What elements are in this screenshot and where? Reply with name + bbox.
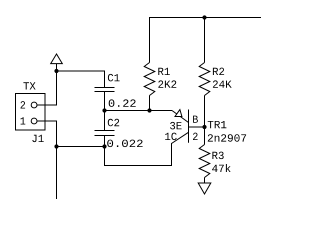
node pin1/bottom wire junction [54, 144, 58, 148]
connector J1 [16, 94, 46, 131]
wire VCC to pin2 [37, 71, 57, 105]
pin 2 circle [31, 102, 37, 108]
node R1/emitter junction [147, 108, 151, 112]
label 2K2 [158, 80, 176, 87]
label 2 [21, 101, 26, 108]
label B [193, 116, 198, 123]
label 47k [212, 164, 231, 172]
label R3 [212, 152, 223, 160]
resistor R1 [144, 63, 155, 96]
capacitor C2 [104, 111, 106, 131]
transistor TR1 emitter diagonal [172, 111, 189, 123]
wire C1 bottom lead [104, 92, 106, 111]
label 2n2907 [208, 134, 246, 142]
resistor R2 [199, 63, 210, 96]
wire R2 top lead [204, 18, 206, 63]
pin 1 circle [31, 118, 37, 124]
node top rail junction [202, 15, 206, 19]
label J1 [32, 135, 43, 142]
transistor TR1 emitter arrow [175, 110, 182, 117]
wire R1 bottom lead [149, 96, 151, 111]
node base junction [202, 125, 206, 129]
power VCC symbol [51, 54, 63, 64]
wire R3 bottom lead [204, 178, 206, 184]
label 24K [213, 80, 232, 87]
wire bottom net [57, 146, 105, 148]
wire emitter net [105, 110, 173, 112]
label 3E [170, 122, 182, 129]
wire VCC rail to C1 [57, 71, 105, 88]
label 0.022 [107, 140, 142, 148]
capacitor C1 [95, 87, 115, 89]
wire top rail [149, 17, 261, 19]
label TX [23, 82, 35, 89]
label 2 [193, 133, 198, 140]
label R2 [213, 68, 224, 75]
label 0.22 [109, 99, 136, 107]
resistor R3 [199, 145, 210, 178]
node C1/C2/emitter junction [102, 108, 106, 112]
label C2 [108, 119, 119, 127]
label C1 [108, 74, 120, 82]
wire pin1 [37, 121, 57, 199]
label 1C [165, 133, 177, 141]
transistor TR1 base bar [188, 110, 190, 143]
ground [198, 183, 211, 194]
wire collector net [105, 132, 189, 165]
node C2/collector junction [102, 144, 106, 148]
label TR1 [208, 121, 227, 128]
label 1 [21, 117, 26, 124]
wire base lead [189, 126, 205, 128]
wire R1 top lead [149, 18, 151, 63]
node VCC junction [54, 69, 58, 73]
wire R2 bottom to base junction to R3 [204, 96, 206, 145]
label R1 [158, 68, 170, 75]
wire VCC stub [56, 64, 58, 71]
